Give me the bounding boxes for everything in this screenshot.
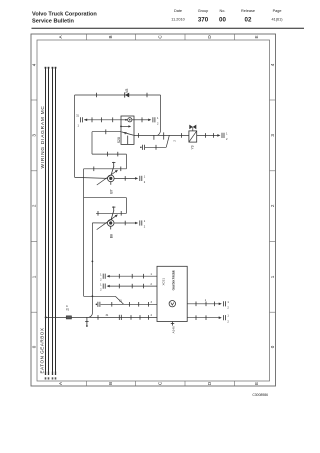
svg-text:XC61: XC61: [162, 278, 166, 286]
svg-text:Release: Release: [241, 9, 255, 13]
wire: riser from B8 to bottom: [89, 223, 93, 318]
solenoid valve Y3 body: [189, 131, 197, 142]
svg-text:2: 2: [157, 121, 159, 125]
svg-text:1: 1: [32, 275, 37, 278]
svg-text:D: D: [207, 35, 212, 39]
wire: B8 left feed from riser: [92, 222, 107, 224]
frame row numbers right: [270, 63, 275, 348]
wire: top feed horizontal: [75, 95, 161, 178]
connector arrow B8 output: [135, 219, 146, 229]
diode V8: [125, 89, 130, 98]
wire: ECU line 2: [108, 285, 157, 287]
svg-text:2: 2: [227, 305, 229, 309]
wire: B8 output: [114, 222, 137, 224]
svg-text:1: 1: [270, 275, 275, 278]
wire: V1 to pressure switch B7: [75, 177, 108, 178]
svg-text:S28: S28: [117, 137, 121, 143]
svg-text:3: 3: [151, 301, 153, 304]
svg-text:Y3: Y3: [191, 145, 195, 149]
wire: ECU line 4 / ground feed: [46, 316, 157, 318]
svg-text:02: 02: [245, 17, 252, 24]
svg-text:0: 0: [32, 345, 37, 348]
pressure switch B8 body: [107, 220, 114, 227]
svg-text:A: A: [58, 35, 63, 39]
svg-text:4: 4: [32, 63, 37, 66]
svg-text:Group: Group: [198, 9, 209, 13]
tick: [105, 129, 107, 134]
svg-text:1: 1: [226, 131, 228, 135]
ticks line4: [98, 315, 148, 320]
svg-text:B: B: [108, 382, 113, 385]
pressure switch B7 actuation arrow: [97, 170, 118, 185]
tick: [155, 145, 157, 150]
svg-text:1: 1: [227, 314, 229, 318]
header title: [32, 12, 97, 25]
svg-text:1: 1: [151, 273, 153, 276]
junction dot on riser: [92, 261, 94, 263]
pressure switch B8 actuation arrow: [97, 215, 118, 230]
connector arrow line1: [100, 272, 110, 281]
svg-text:2: 2: [100, 278, 102, 282]
wire: relay coil output: [134, 119, 150, 121]
pressure switch B8 loop top: [84, 198, 127, 214]
ticks on coil feed wire: [92, 117, 113, 122]
svg-text:D: D: [207, 381, 212, 385]
ticks sensor2: [98, 211, 121, 216]
svg-text:370: 370: [198, 17, 209, 24]
junction dot riser crossing: [92, 295, 94, 297]
bus terminals top: [45, 67, 57, 69]
svg-text:2: 2: [32, 204, 37, 207]
svg-text:3: 3: [32, 134, 37, 137]
connector arrow line2: [100, 282, 110, 291]
relay armature arrow: [120, 125, 131, 127]
frame column letters top: [58, 35, 259, 39]
connector at relay coil wire left: [76, 114, 87, 128]
svg-text:2: 2: [144, 180, 146, 184]
drawing frame inner: [37, 40, 270, 381]
svg-text:0: 0: [270, 345, 275, 348]
pressure switch B7 bottom stub: [110, 182, 112, 185]
wire: diagonal to ECU pin3 line: [115, 296, 123, 304]
drawing frame outer: [31, 34, 276, 386]
frame border dividers: [31, 34, 276, 386]
ticks line2: [119, 284, 143, 289]
svg-text:2: 2: [151, 283, 153, 286]
svg-text:Gearbox Module: Gearbox Module: [171, 270, 175, 291]
pressure switch B7 loop top: [84, 154, 127, 296]
connector pair on line4: [119, 315, 121, 320]
svg-text:31: 31: [76, 114, 79, 118]
pressure switch B8 wire: [96, 212, 127, 214]
frame column letters bottom: [58, 381, 259, 385]
connector arrow right output 2: [219, 314, 230, 324]
pressure switch B8 pin stub: [112, 206, 115, 210]
svg-text:11.2010: 11.2010: [171, 18, 184, 22]
connector arrow coil output: [148, 116, 159, 126]
ticks line1: [119, 274, 143, 279]
svg-text:31: 31: [119, 300, 122, 303]
ground stub below line4: [85, 317, 88, 326]
frame row numbers left: [32, 63, 37, 348]
supply bus line 2: [48, 68, 50, 375]
svg-text:Volvo Truck Corporation: Volvo Truck Corporation: [32, 12, 97, 18]
svg-text:1: 1: [100, 272, 102, 276]
svg-text:C: C: [158, 381, 163, 385]
relay contact arrowhead: [124, 132, 127, 134]
ticks on valve output: [206, 133, 214, 138]
ECU motor symbol: [169, 301, 175, 307]
connector on branch wire: [140, 145, 144, 150]
svg-text:Service Bulletin: Service Bulletin: [32, 19, 75, 25]
tick on top wire right: [146, 93, 148, 97]
wire: drop to relay contact: [157, 95, 160, 135]
wire: ECU line 3: [101, 303, 157, 305]
supply bus line 1: [46, 68, 56, 375]
relay contact: [122, 132, 134, 145]
svg-text:EATON GEARBOX: EATON GEARBOX: [40, 328, 45, 374]
tick: [124, 176, 126, 181]
solenoid valve Y3 bowtie: [189, 125, 196, 131]
svg-text:1: 1: [144, 219, 146, 223]
ticks sensor1 loop: [94, 152, 121, 171]
svg-text:B7: B7: [109, 189, 113, 193]
svg-text:41(61): 41(61): [272, 18, 284, 22]
connector arrow B7 output: [135, 174, 146, 184]
svg-text:A: A: [58, 381, 63, 385]
ticks right output 2: [196, 315, 206, 320]
ticks on contact output: [138, 132, 181, 139]
svg-text:V8: V8: [125, 89, 129, 93]
svg-text:4: 4: [151, 314, 153, 317]
svg-text:E: E: [254, 35, 259, 38]
tick: [141, 117, 143, 122]
connector arrow right output 1: [219, 300, 230, 310]
wire: ECU right output 1: [187, 303, 220, 305]
svg-text:2: 2: [144, 225, 146, 229]
supply bus line 3: [52, 68, 54, 375]
svg-text:2: 2: [270, 204, 275, 207]
svg-text:2: 2: [173, 140, 177, 142]
svg-text:00: 00: [219, 17, 226, 24]
svg-text:1: 1: [78, 123, 80, 127]
wire: branch diagonal up: [166, 135, 169, 147]
fuse F5: [66, 304, 72, 319]
relay S28 box: [121, 116, 134, 144]
svg-text:1: 1: [144, 174, 146, 178]
ground stub terminal: [86, 325, 88, 327]
wire: ECU line 1: [108, 275, 157, 277]
ECU bottom pin stub: [171, 322, 174, 326]
junction bus: [45, 316, 47, 318]
svg-text:2: 2: [227, 319, 229, 323]
svg-text:2: 2: [226, 137, 228, 141]
svg-text:2: 2: [100, 288, 102, 292]
svg-text:1: 1: [100, 282, 102, 286]
tick: [124, 221, 126, 226]
pressure switch B7 blade: [111, 166, 114, 175]
ticks right output 1: [196, 302, 215, 307]
wire: B7 output: [114, 177, 137, 179]
svg-text:4: 4: [270, 63, 275, 66]
wire: main contact output: [134, 134, 189, 136]
tick on top wire: [96, 93, 98, 97]
wire: V_a bottom horizontal: [84, 295, 116, 297]
relay coil: [121, 118, 134, 122]
svg-text:B: B: [108, 35, 113, 38]
bus wire number tags bottom: [45, 377, 57, 379]
ECU A146 box (Gearbox Module): [157, 266, 187, 321]
header fields: [171, 9, 283, 24]
svg-text:1: 1: [205, 299, 207, 302]
svg-text:E: E: [254, 382, 259, 385]
svg-text:Date: Date: [174, 9, 182, 13]
header rule: [32, 27, 305, 29]
connector ECU line 3 left: [96, 302, 100, 307]
svg-text:C: C: [158, 35, 163, 39]
svg-text:1: 1: [227, 300, 229, 304]
svg-text:1: 1: [157, 116, 159, 120]
pressure switch B8 bottom stub: [110, 226, 112, 229]
svg-text:31: 31: [106, 314, 109, 317]
svg-text:Page: Page: [273, 9, 282, 13]
ticks line3: [112, 302, 149, 307]
connector arrow valve output: [217, 131, 228, 141]
supply bus line 4: [55, 68, 57, 375]
svg-text:A146: A146: [172, 326, 176, 333]
wire: branch horizontal: [145, 146, 166, 148]
svg-text:No.: No.: [220, 9, 226, 13]
svg-text:A: A: [66, 304, 68, 308]
wire: long left drop V_a: [83, 169, 85, 296]
wire: left feed vertical V1: [74, 95, 76, 177]
wire: relay coil feed: [84, 119, 121, 121]
wire: jog down: [91, 132, 93, 154]
pressure switch B7 body: [108, 175, 115, 182]
svg-text:B8: B8: [109, 234, 113, 238]
svg-text:3: 3: [270, 134, 275, 137]
bus terminals bottom: [46, 372, 56, 376]
svg-text:C3008986: C3008986: [252, 393, 268, 397]
pressure switch B8 blade: [111, 210, 114, 219]
wire: ECU right output 2: [187, 317, 220, 319]
wire: relay lower pin to left jog: [92, 131, 121, 133]
pressure switch B7 pin stub: [112, 162, 115, 166]
wire: valve output: [197, 134, 219, 136]
pressure switch B7 wire: [84, 168, 127, 170]
